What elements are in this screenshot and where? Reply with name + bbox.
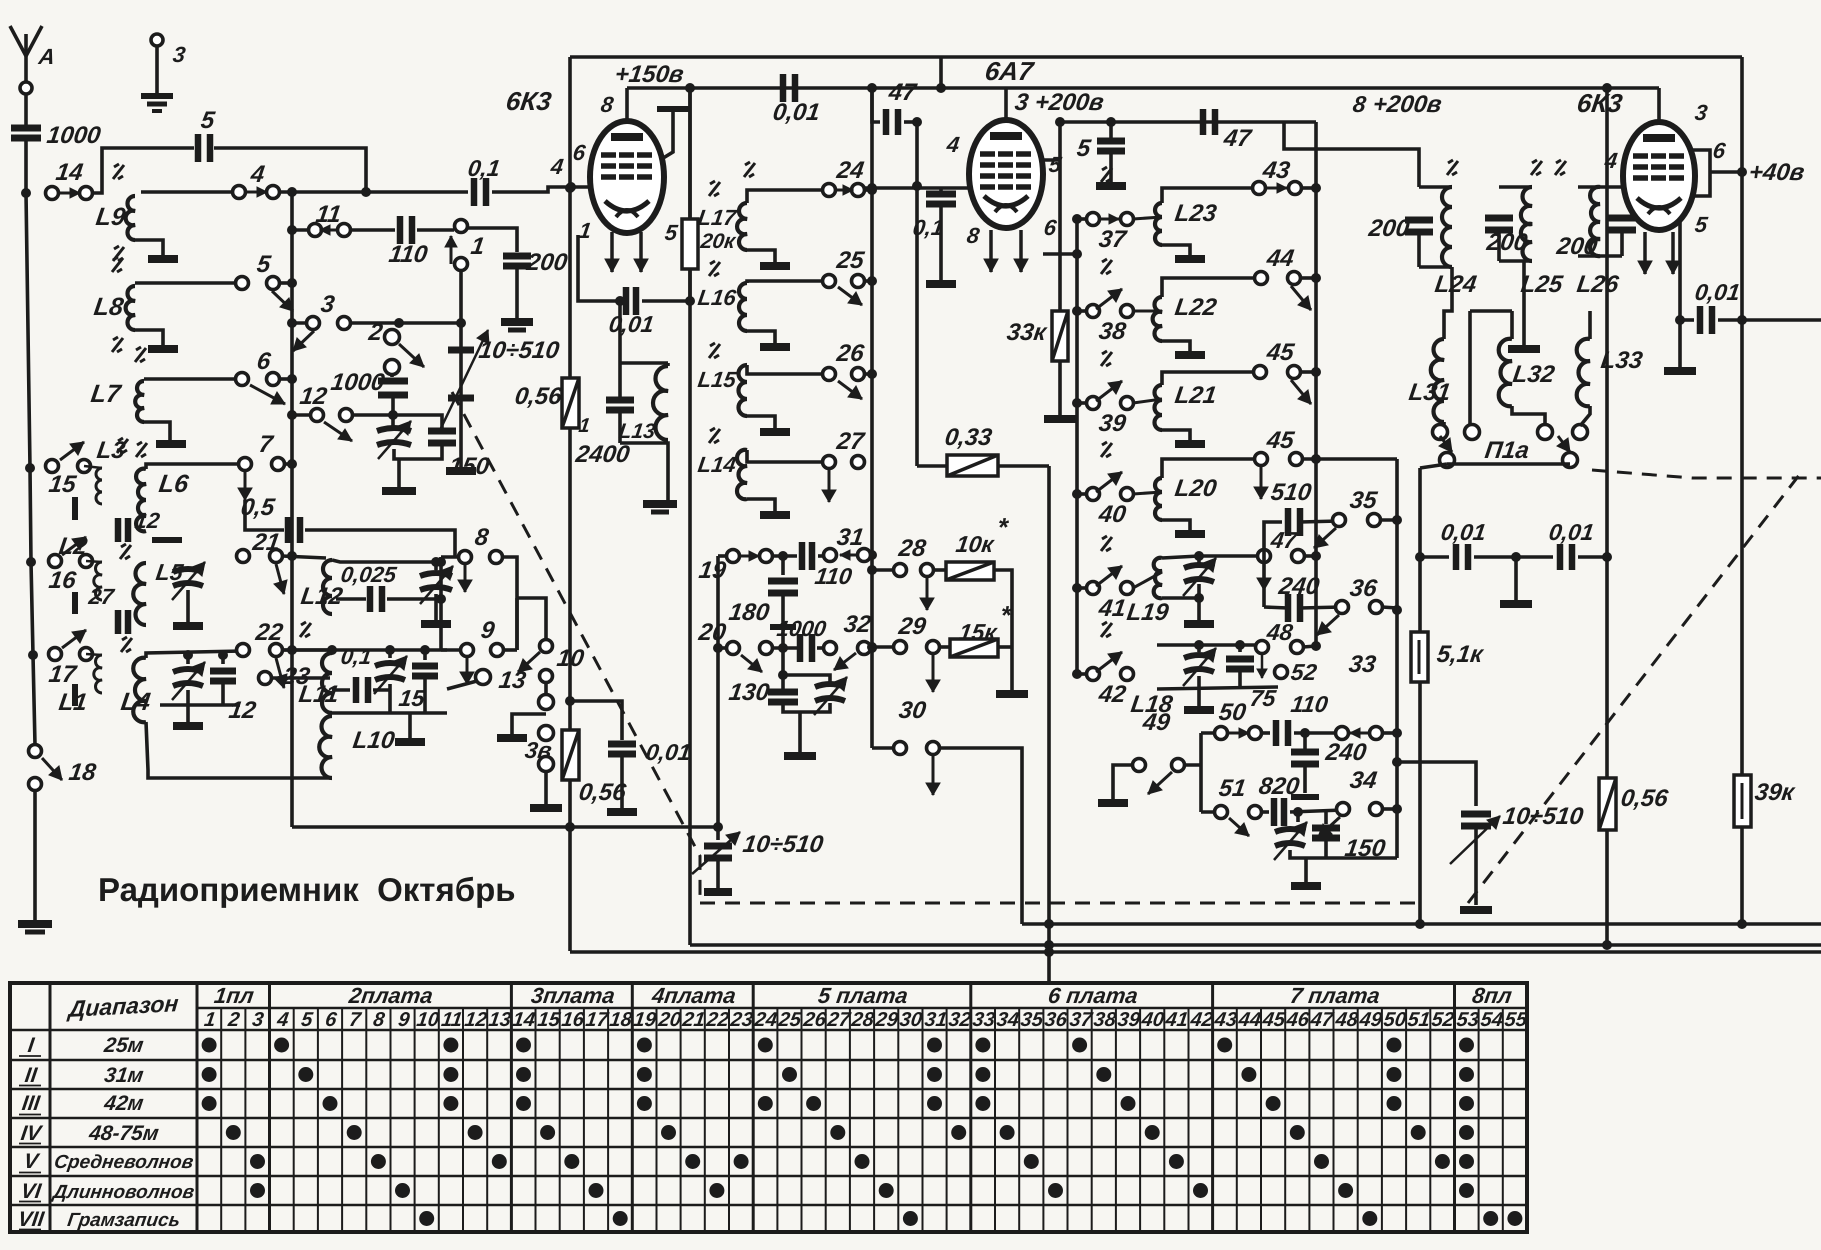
wire trimmer block bottom rail bbox=[394, 443, 442, 459]
wire tube U3 pin5 bbox=[1678, 222, 1682, 320]
switch 25 arrow bbox=[838, 287, 862, 305]
wire L21 top to row45 bbox=[1162, 372, 1260, 385]
svg-text:110: 110 bbox=[1289, 691, 1330, 717]
ground L5 bbox=[173, 622, 203, 630]
capacitor 27 link bbox=[115, 610, 122, 634]
wire L25 tank to ground bbox=[1522, 261, 1526, 345]
svg-text:22: 22 bbox=[704, 1009, 730, 1031]
switch 40 bbox=[1077, 492, 1093, 496]
coil L4 bbox=[133, 658, 146, 722]
wire L13 feed bbox=[618, 301, 622, 363]
trimmer capacitor L18 bbox=[1197, 645, 1201, 652]
svg-text:41: 41 bbox=[1096, 595, 1127, 622]
wire x1264 vertical bbox=[1262, 556, 1266, 607]
svg-text:8пл: 8пл bbox=[1471, 983, 1514, 1008]
wire L4 to L10 bottom bbox=[146, 722, 332, 778]
wire pin5 ground bbox=[1678, 320, 1682, 367]
wire L24 tank bottom bbox=[1444, 267, 1452, 339]
svg-text:A: A bbox=[36, 44, 56, 69]
svg-text:5,1к: 5,1к bbox=[1435, 641, 1486, 668]
ground osc block bbox=[1291, 882, 1321, 890]
wire switch1 to varcap bbox=[459, 270, 463, 352]
ground L19 bbox=[1197, 598, 1201, 620]
ground 49 bbox=[1098, 799, 1128, 807]
wire x1420 vertical bbox=[1418, 468, 1422, 924]
svg-text:Грамзапись: Грамзапись bbox=[66, 1210, 181, 1231]
resistor 5,1k bbox=[1411, 632, 1428, 682]
svg-text:45: 45 bbox=[1264, 339, 1296, 366]
svg-text:6 плата: 6 плата bbox=[1047, 983, 1140, 1008]
svg-text:44: 44 bbox=[1264, 245, 1295, 272]
svg-text:33: 33 bbox=[1347, 651, 1378, 678]
svg-text:3плата: 3плата bbox=[530, 983, 617, 1008]
svg-text:П1а: П1а bbox=[1483, 437, 1531, 464]
svg-text:43: 43 bbox=[1212, 1009, 1238, 1031]
svg-text:19: 19 bbox=[697, 557, 728, 584]
coil L21 bbox=[1155, 385, 1163, 430]
ground 10k15k bbox=[1010, 647, 1014, 690]
capacitor 0,1 mixer grid bbox=[939, 188, 943, 192]
trimmer capacitor L4 bbox=[186, 655, 190, 664]
wire L4 bottom rail bbox=[160, 703, 240, 707]
ground L22 bbox=[1175, 351, 1205, 359]
svg-text:L33: L33 bbox=[1599, 347, 1645, 374]
svg-text:53: 53 bbox=[1455, 1009, 1480, 1031]
svg-text:35: 35 bbox=[1348, 487, 1379, 514]
svg-text:L11: L11 bbox=[297, 681, 340, 708]
svg-text:48: 48 bbox=[1264, 619, 1294, 645]
svg-text:27: 27 bbox=[825, 1009, 852, 1031]
ground L11 bbox=[408, 713, 412, 738]
tube U2 cathode arrows bbox=[989, 230, 993, 272]
svg-text:L22: L22 bbox=[1173, 294, 1219, 321]
wire vertical x1049 to table bbox=[1047, 466, 1051, 982]
capacitor 2400 bbox=[620, 361, 668, 365]
svg-text:110: 110 bbox=[387, 241, 430, 268]
wire L13 bottom bbox=[620, 443, 668, 500]
svg-text:L26: L26 bbox=[1575, 271, 1621, 298]
svg-text:12: 12 bbox=[298, 383, 329, 410]
svg-text:10÷510: 10÷510 bbox=[477, 337, 561, 364]
wire right border bbox=[1740, 57, 1744, 924]
svg-text:52: 52 bbox=[1430, 1009, 1455, 1031]
wire tube2 pin6 to bank bbox=[1043, 252, 1077, 256]
svg-text:45: 45 bbox=[1260, 1009, 1287, 1031]
svg-text:37: 37 bbox=[1068, 1009, 1094, 1031]
svg-text:L8: L8 bbox=[92, 293, 125, 321]
ground L18 cluster bbox=[1197, 689, 1201, 706]
svg-text:16: 16 bbox=[560, 1009, 586, 1031]
svg-text:40: 40 bbox=[1096, 501, 1128, 528]
svg-text:49: 49 bbox=[1140, 709, 1172, 736]
capacitor 0,01 bottom left bbox=[570, 701, 622, 740]
trimmer capacitor L19 bbox=[1184, 565, 1214, 568]
capacitor 75 bbox=[1238, 645, 1242, 652]
svg-text:29: 29 bbox=[873, 1009, 900, 1031]
svg-text:11: 11 bbox=[440, 1009, 464, 1031]
wire to bottom ground bbox=[33, 790, 37, 920]
svg-text:L23: L23 bbox=[1173, 200, 1219, 227]
wire grid line bbox=[279, 190, 468, 194]
svg-text:52: 52 bbox=[1289, 659, 1318, 685]
coil L19 bbox=[1154, 558, 1162, 598]
svg-text:+200в: +200в bbox=[1371, 91, 1443, 118]
svg-text:32: 32 bbox=[947, 1009, 972, 1031]
ground varcap left bbox=[446, 467, 476, 475]
svg-text:50: 50 bbox=[1382, 1009, 1407, 1031]
ground L4 block bbox=[173, 722, 203, 730]
wire L11 top rail bbox=[282, 648, 447, 652]
wire L22 top to row44 bbox=[1162, 278, 1261, 297]
variable capacitor 10-510 right bbox=[1461, 811, 1491, 818]
coil L33 bbox=[1588, 311, 1592, 339]
svg-text:L19: L19 bbox=[1125, 599, 1171, 626]
svg-text:36: 36 bbox=[1348, 575, 1379, 602]
wire rail x1397 bbox=[1395, 459, 1399, 858]
resistor 0,56 upper bbox=[562, 378, 579, 428]
wire to tube1 grid bbox=[492, 187, 592, 192]
svg-text:820: 820 bbox=[1257, 773, 1301, 800]
wire +150V/+200V anode rail bbox=[627, 86, 1659, 90]
coil L32 bbox=[1510, 311, 1514, 339]
svg-text:10к: 10к bbox=[954, 531, 996, 557]
wire left box edge bbox=[568, 57, 572, 951]
svg-text:L17: L17 bbox=[696, 205, 739, 230]
svg-text:39: 39 bbox=[1097, 410, 1128, 437]
wire 47 down to 0,33 bbox=[915, 122, 919, 466]
wire top border bbox=[570, 55, 1742, 59]
svg-text:0,01: 0,01 bbox=[771, 99, 822, 126]
trimmer capacitor osc bbox=[1296, 812, 1300, 822]
coil L31 bbox=[1431, 339, 1444, 422]
svg-text:2плата: 2плата bbox=[347, 983, 435, 1008]
coil L26 bbox=[1590, 187, 1600, 256]
svg-text:34: 34 bbox=[995, 1009, 1020, 1031]
capacitor 1000 antenna bbox=[24, 94, 28, 126]
svg-text:47: 47 bbox=[1221, 125, 1254, 152]
ground cap5 bbox=[1096, 182, 1126, 190]
svg-text:18: 18 bbox=[67, 759, 98, 786]
svg-text:22: 22 bbox=[253, 619, 285, 646]
wire switch column x292 bbox=[290, 192, 294, 827]
capacitor 0,01 cathode bbox=[578, 235, 624, 301]
switch 37 bbox=[1077, 217, 1093, 221]
ground trimmer block bbox=[397, 459, 401, 487]
ground tube U3 bbox=[1664, 367, 1696, 375]
svg-text:32: 32 bbox=[842, 611, 873, 638]
svg-text:24: 24 bbox=[834, 157, 865, 184]
svg-text:0,56: 0,56 bbox=[513, 383, 564, 410]
switch 27 arrow bbox=[828, 470, 831, 502]
capacitor 150 bbox=[440, 425, 444, 428]
svg-text:6К3: 6К3 bbox=[1575, 88, 1625, 118]
svg-text:20к: 20к bbox=[698, 230, 738, 253]
wire L11 bottom rail bbox=[332, 711, 447, 715]
dashed gang line right diagonal bbox=[1468, 474, 1800, 903]
svg-text:47: 47 bbox=[886, 79, 919, 106]
tube U1 plate lead bbox=[625, 88, 629, 122]
coil L11 bbox=[322, 653, 332, 713]
svg-text:L7: L7 bbox=[89, 380, 123, 408]
resistor 20k bbox=[688, 88, 692, 219]
svg-text:42: 42 bbox=[1096, 681, 1128, 708]
svg-text:L32: L32 bbox=[1511, 361, 1557, 388]
core bar L3 bbox=[72, 497, 78, 520]
switch 38 bbox=[1077, 309, 1093, 313]
svg-text:15: 15 bbox=[47, 471, 78, 498]
ground 33k bbox=[1044, 415, 1076, 423]
svg-text:28: 28 bbox=[896, 535, 928, 562]
svg-text:L21: L21 bbox=[1173, 382, 1218, 409]
svg-text:42м: 42м bbox=[102, 1092, 146, 1115]
wire L20 top to row45b bbox=[1162, 459, 1261, 478]
svg-text:39: 39 bbox=[1116, 1009, 1142, 1031]
svg-text:38: 38 bbox=[1097, 318, 1128, 345]
svg-text:L25: L25 bbox=[1519, 271, 1565, 298]
svg-text:35: 35 bbox=[1019, 1009, 1045, 1031]
svg-text:31м: 31м bbox=[103, 1064, 146, 1087]
ground L14 bbox=[760, 511, 790, 519]
svg-text:200: 200 bbox=[524, 249, 569, 276]
svg-text:27: 27 bbox=[834, 428, 867, 455]
wire screen rail y122 bbox=[1060, 120, 1316, 124]
svg-text:L10: L10 bbox=[351, 727, 397, 754]
svg-text:0,01: 0,01 bbox=[1439, 519, 1487, 545]
tube U3 cathode arrows bbox=[1643, 232, 1647, 274]
svg-text:12: 12 bbox=[227, 697, 258, 724]
dashed gang line top right bbox=[1592, 470, 1821, 478]
dashed gang line bottom bbox=[700, 902, 1422, 905]
svg-text:17: 17 bbox=[584, 1009, 610, 1031]
svg-text:48: 48 bbox=[1333, 1009, 1360, 1031]
svg-text:28: 28 bbox=[849, 1009, 876, 1031]
svg-text:43: 43 bbox=[1260, 157, 1292, 184]
ground L21 bbox=[1175, 440, 1205, 448]
svg-text:150: 150 bbox=[447, 453, 491, 480]
svg-text:75: 75 bbox=[1248, 685, 1278, 711]
capacitor 200 bbox=[503, 253, 531, 260]
svg-text:1000: 1000 bbox=[329, 369, 387, 396]
svg-text:12: 12 bbox=[463, 1009, 488, 1031]
wire bus middle bbox=[690, 943, 1821, 947]
ground 130 bbox=[784, 752, 816, 760]
svg-text:30: 30 bbox=[897, 697, 928, 724]
capacitor 12 link bbox=[115, 518, 122, 542]
svg-text:42: 42 bbox=[1188, 1009, 1214, 1031]
coil L16 bbox=[739, 283, 747, 331]
svg-text:54: 54 bbox=[1479, 1009, 1504, 1031]
wire resistor to junction bbox=[688, 269, 692, 301]
coil L9 bbox=[126, 196, 135, 240]
svg-text:L13: L13 bbox=[617, 420, 657, 443]
svg-text:510: 510 bbox=[1269, 479, 1313, 506]
wire bottom rail y827 bbox=[292, 825, 718, 829]
svg-text:33: 33 bbox=[971, 1009, 996, 1031]
svg-text:L14: L14 bbox=[696, 452, 737, 477]
capacitor 1000 padder bbox=[390, 373, 394, 377]
svg-text:55: 55 bbox=[1503, 1009, 1529, 1031]
coil L6 bbox=[136, 469, 146, 532]
svg-text:10: 10 bbox=[415, 1009, 440, 1031]
coil L3 bbox=[96, 468, 102, 504]
svg-text:51: 51 bbox=[1217, 775, 1247, 802]
tube U3 pin6 bracket bbox=[1688, 150, 1710, 196]
svg-text:110: 110 bbox=[813, 563, 854, 589]
svg-text:3 +200в: 3 +200в bbox=[1013, 89, 1105, 116]
coil L17 bbox=[737, 203, 747, 250]
svg-text:14: 14 bbox=[511, 1009, 536, 1031]
trimmer capacitor block bbox=[377, 428, 411, 431]
ground L23 bbox=[1175, 255, 1205, 263]
coil L20 bbox=[1155, 478, 1162, 520]
svg-text:L31: L31 bbox=[1407, 379, 1452, 406]
svg-text:7 плата: 7 плата bbox=[1289, 983, 1382, 1008]
selector P1a bbox=[1442, 422, 1446, 426]
wire bus upper bbox=[1022, 922, 1821, 926]
svg-text:24: 24 bbox=[752, 1009, 778, 1031]
svg-text:240: 240 bbox=[1323, 739, 1368, 766]
variable capacitor 10-510 left bbox=[448, 347, 474, 354]
ground 3v left bbox=[497, 734, 527, 742]
switch 39 bbox=[1077, 401, 1093, 405]
svg-text:0,025: 0,025 bbox=[339, 562, 398, 587]
svg-text:15: 15 bbox=[397, 685, 427, 711]
wire antenna down-lead bbox=[26, 140, 35, 745]
svg-text:6А7: 6А7 bbox=[983, 56, 1036, 86]
svg-text:L24: L24 bbox=[1433, 271, 1478, 298]
svg-text:25м: 25м bbox=[102, 1034, 146, 1057]
svg-text:130: 130 bbox=[727, 679, 771, 706]
svg-text:+40в: +40в bbox=[1747, 159, 1806, 186]
trimmer capacitor L11 bbox=[388, 650, 392, 658]
coil L2 bbox=[94, 562, 102, 600]
svg-text:14: 14 bbox=[54, 159, 84, 186]
svg-text:31: 31 bbox=[835, 524, 865, 551]
ground L7 bbox=[156, 440, 186, 448]
wire vertical x718 bbox=[716, 556, 720, 827]
svg-text:44: 44 bbox=[1236, 1009, 1262, 1031]
svg-text:+150в: +150в bbox=[613, 61, 685, 88]
ground L9 bbox=[148, 255, 178, 263]
ground L8 bbox=[148, 345, 178, 353]
coil L8 bbox=[135, 281, 242, 285]
resistor 33k bbox=[1058, 122, 1062, 311]
svg-text:31: 31 bbox=[923, 1009, 948, 1031]
coil L23 bbox=[1155, 203, 1162, 245]
svg-text:1пл: 1пл bbox=[213, 983, 256, 1008]
svg-text:4плата: 4плата bbox=[650, 983, 738, 1008]
svg-text:49: 49 bbox=[1357, 1009, 1384, 1031]
resistor 0,56 left bbox=[562, 730, 579, 780]
svg-text:16: 16 bbox=[47, 567, 78, 594]
svg-text:39к: 39к bbox=[1753, 779, 1797, 806]
svg-text:18: 18 bbox=[608, 1009, 634, 1031]
capacitor 12 L4 bbox=[221, 655, 225, 664]
svg-text:23: 23 bbox=[728, 1009, 754, 1031]
svg-text:10: 10 bbox=[555, 645, 586, 672]
svg-text:L3: L3 bbox=[95, 437, 127, 464]
svg-text:34: 34 bbox=[1348, 767, 1378, 794]
svg-text:180: 180 bbox=[727, 599, 771, 626]
capacitor 110 IF bbox=[772, 554, 797, 558]
ground 3v bottom bbox=[530, 804, 562, 812]
wire P1a bottom bbox=[1420, 464, 1447, 468]
svg-text:L15: L15 bbox=[696, 367, 738, 392]
ground L20 bbox=[1175, 530, 1205, 538]
svg-text:0,01: 0,01 bbox=[644, 739, 692, 765]
wire bracket x1201 bbox=[1199, 733, 1203, 812]
svg-text:51: 51 bbox=[1406, 1009, 1431, 1031]
ground L13 bbox=[643, 500, 677, 508]
ground det bbox=[1514, 557, 1518, 600]
svg-text:0,56: 0,56 bbox=[1619, 785, 1670, 812]
svg-text:Длинноволнов: Длинноволнов bbox=[50, 1182, 196, 1203]
svg-text:Средневолнов: Средневолнов bbox=[53, 1152, 195, 1173]
antenna A bbox=[10, 26, 26, 56]
earth terminal 3 bbox=[151, 34, 163, 46]
wire 3v to ground left bbox=[512, 714, 546, 735]
ground L15 bbox=[760, 428, 790, 436]
switch 24 arrow bbox=[837, 189, 853, 192]
svg-text:33к: 33к bbox=[1005, 319, 1049, 346]
svg-text:0,1: 0,1 bbox=[466, 155, 502, 181]
coil L10 bbox=[319, 716, 332, 778]
ground L16 bbox=[760, 343, 790, 351]
capacitor 110 bbox=[350, 228, 395, 232]
svg-text:25: 25 bbox=[776, 1009, 803, 1031]
core bar L1 bbox=[72, 684, 78, 706]
ground 0,01 bottom bbox=[607, 808, 637, 816]
ground trimmer L12 bbox=[421, 620, 451, 628]
svg-text:L6: L6 bbox=[157, 470, 191, 498]
switch 42 bbox=[1077, 672, 1093, 676]
wire vertical x690 bbox=[688, 88, 692, 945]
coil L1 bbox=[94, 655, 102, 693]
wire to cap200 bbox=[467, 228, 517, 252]
core bar L6 bbox=[152, 537, 182, 543]
wire row762 to varcap right bbox=[1397, 762, 1476, 806]
wire bus lower bbox=[570, 950, 1821, 954]
capacitor 1000 IF bbox=[772, 646, 797, 650]
svg-text:19: 19 bbox=[632, 1009, 658, 1031]
svg-text:47: 47 bbox=[1308, 1009, 1335, 1031]
svg-text:25: 25 bbox=[834, 247, 866, 274]
svg-text:46: 46 bbox=[1284, 1009, 1311, 1031]
coil L5 bbox=[133, 563, 146, 625]
svg-text:L2: L2 bbox=[57, 533, 89, 560]
svg-text:10÷510: 10÷510 bbox=[741, 831, 825, 858]
svg-text:0,01: 0,01 bbox=[607, 311, 655, 337]
svg-text:21: 21 bbox=[680, 1009, 706, 1031]
wire switch14 to cap5 bbox=[92, 148, 194, 193]
wire vertical x441 bbox=[439, 557, 443, 650]
svg-text:200: 200 bbox=[1366, 215, 1411, 242]
svg-text:20: 20 bbox=[656, 1009, 682, 1031]
svg-text:0,01: 0,01 bbox=[1693, 279, 1741, 305]
svg-text:L9: L9 bbox=[94, 203, 127, 231]
wire bank vertical x1077 bbox=[1075, 219, 1079, 674]
wire cap5 to junction bbox=[214, 148, 366, 192]
coil L18 cluster bbox=[1157, 643, 1262, 647]
wire tube2 pin5 bbox=[1043, 158, 1060, 162]
wire 130 bottom rail bbox=[783, 703, 830, 712]
svg-text:L12: L12 bbox=[299, 583, 345, 610]
variable capacitor 10-510 bottom bbox=[716, 827, 720, 840]
wire L19 top row47 bbox=[1162, 556, 1264, 558]
switch 41 bbox=[1077, 586, 1093, 590]
ground cap200 bbox=[501, 318, 533, 326]
trimmer capacitor 130 parallel bbox=[783, 675, 830, 682]
